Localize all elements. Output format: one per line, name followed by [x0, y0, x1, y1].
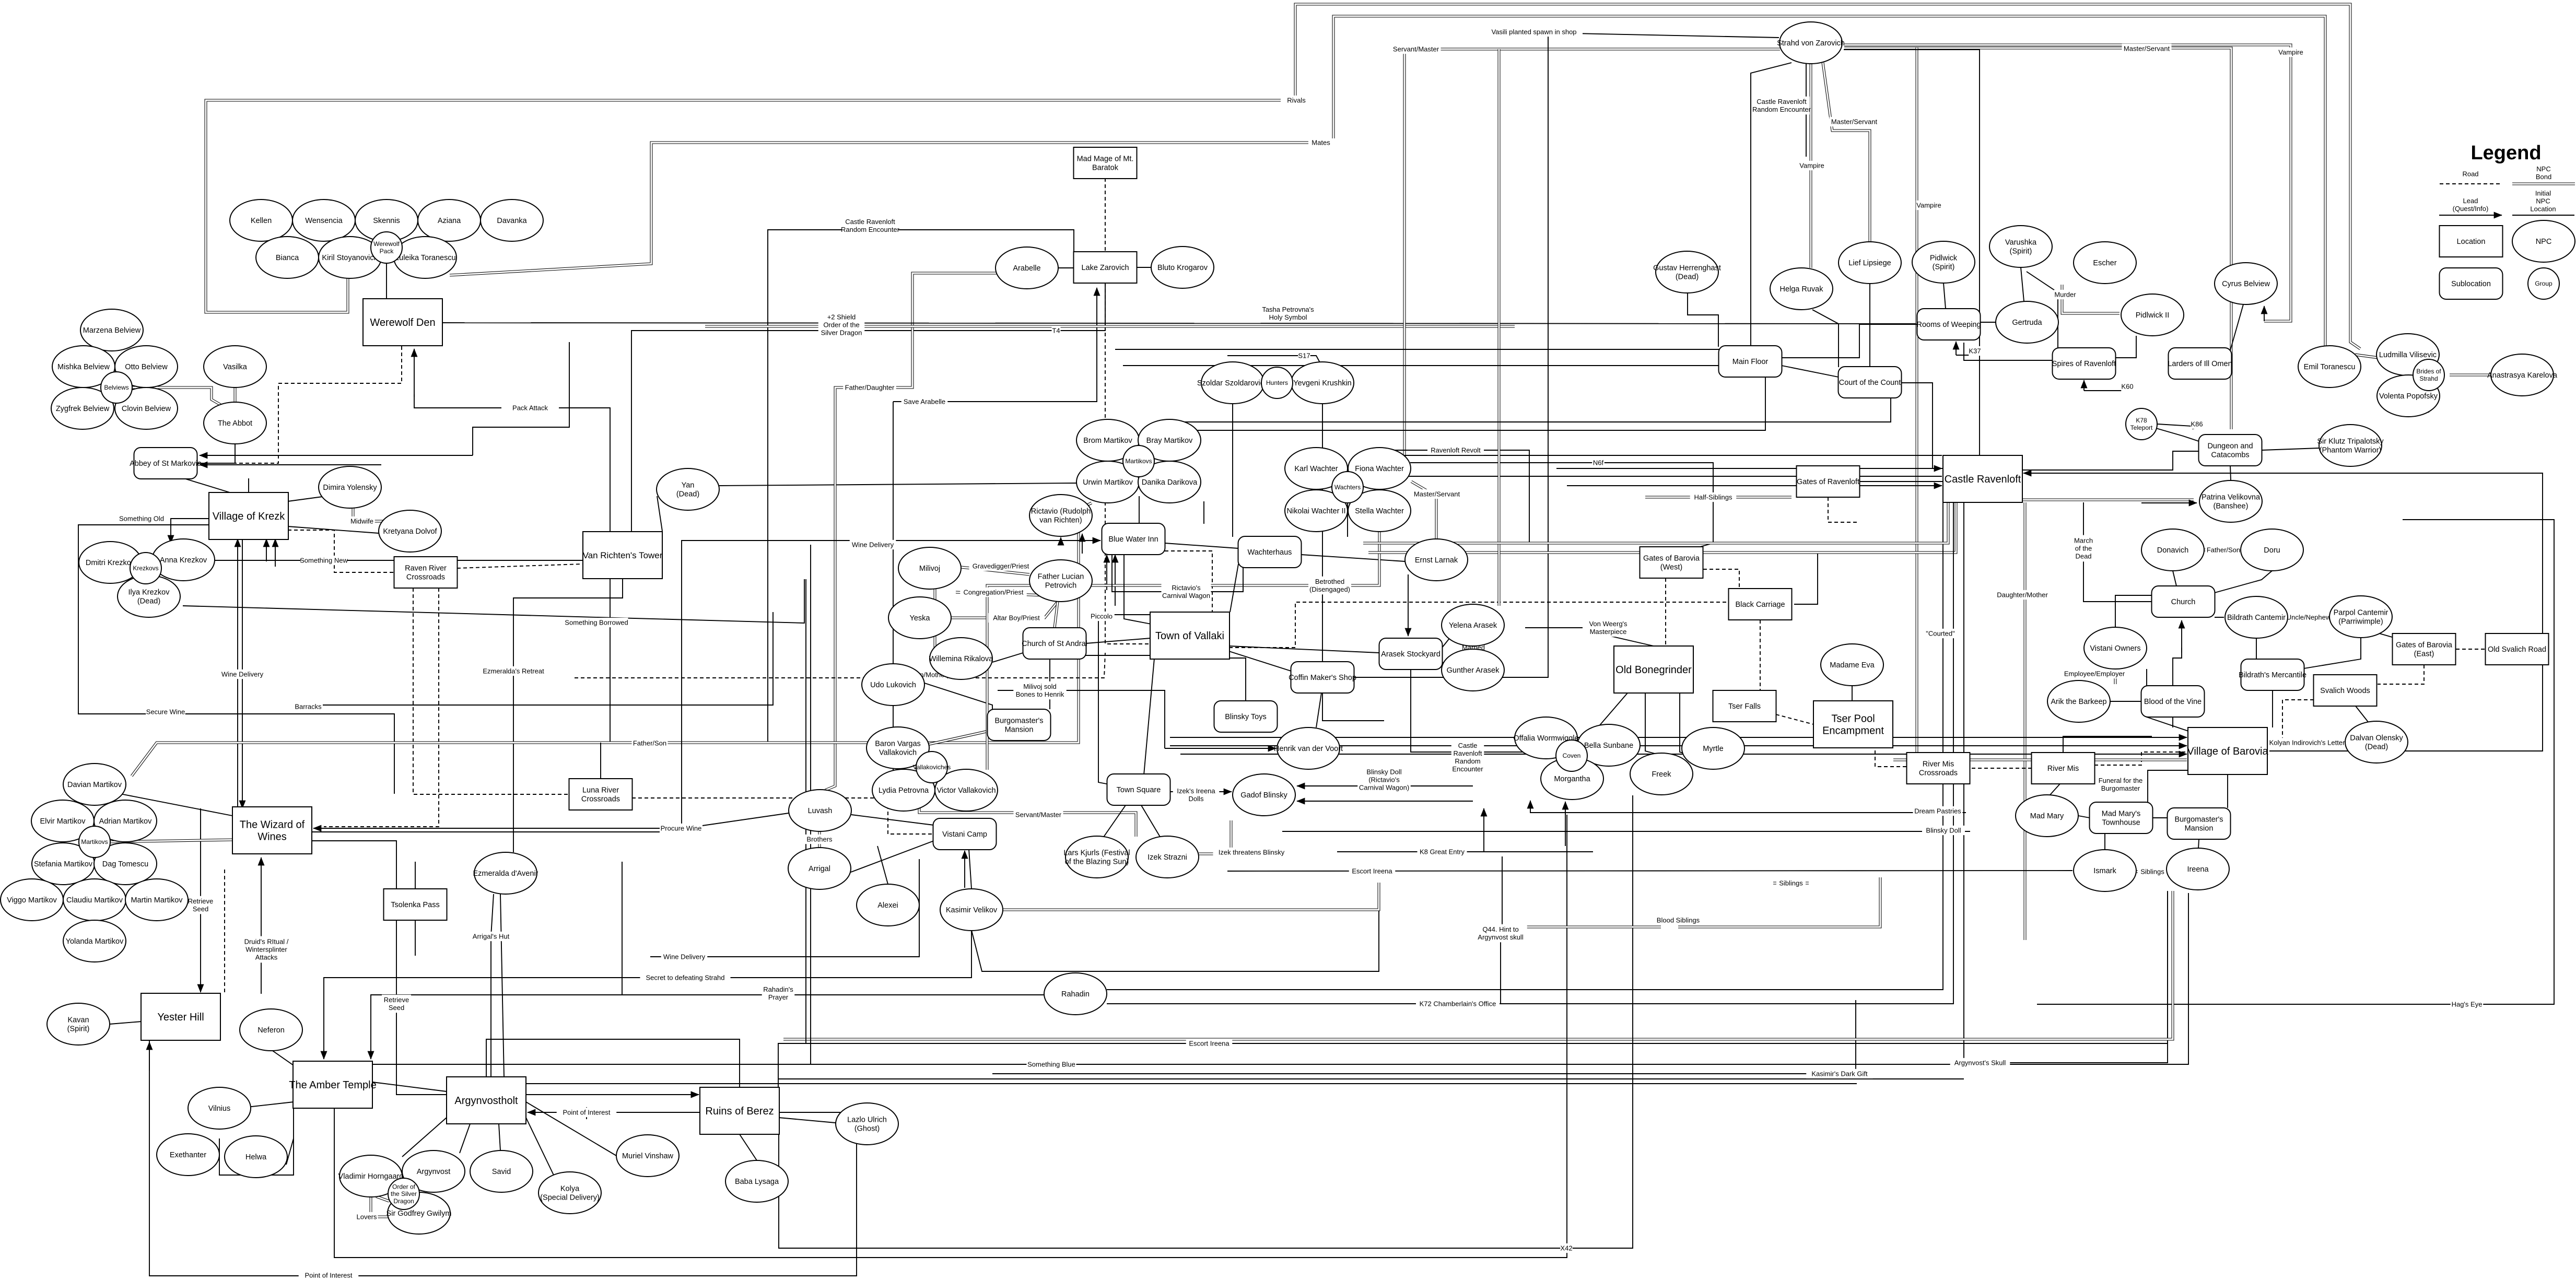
node label — [1052, 326, 1061, 335]
NPC Mishka Belview — [52, 346, 115, 387]
wire — [450, 143, 1308, 275]
wire — [1139, 496, 1140, 524]
svg-text:Half-Siblings: Half-Siblings — [1694, 494, 1732, 501]
wire — [559, 408, 610, 743]
wire — [2374, 632, 2392, 637]
NPC Freek — [1630, 753, 1693, 795]
node label — [1474, 924, 1527, 943]
svg-text:Order of: Order of — [392, 1183, 416, 1190]
wire — [919, 768, 1136, 837]
NPC Gertruda — [1996, 301, 2058, 343]
svg-text:Coffin Maker's Shop: Coffin Maker's Shop — [1289, 674, 1356, 682]
node label — [1588, 619, 1628, 637]
svg-text:Father/Son: Father/Son — [633, 739, 666, 747]
svg-text:K86: K86 — [2191, 420, 2203, 428]
NPC Willemina Rikalova — [929, 638, 993, 679]
wire — [2027, 272, 2058, 350]
group Hunters — [1261, 367, 1293, 398]
svg-text:Betrothed: Betrothed — [1315, 578, 1344, 585]
wire — [2078, 816, 2090, 818]
wire — [1115, 349, 1719, 350]
svg-text:Argynvost skull: Argynvost skull — [1478, 933, 1524, 941]
wire — [1823, 63, 1870, 242]
wire — [1055, 602, 1058, 628]
NPC Viggo Martikov — [1, 879, 63, 921]
wire — [219, 1108, 294, 1175]
NPC Otto Belview — [115, 346, 178, 387]
location Gates of Ravenloft — [1797, 466, 1860, 497]
location Village of Barovia — [2187, 727, 2268, 774]
wire — [779, 1118, 836, 1123]
wire — [2094, 752, 2187, 765]
sublocation Wachterhaus — [1238, 536, 1302, 568]
wire — [413, 588, 569, 794]
wire — [1680, 693, 1697, 757]
svg-text:Village of Barovia: Village of Barovia — [2187, 746, 2268, 757]
wire — [1500, 940, 1501, 1004]
sublocation Blinsky Toys — [1214, 701, 1278, 732]
NPC Lief Lipsiege — [1839, 242, 1901, 284]
node label — [2065, 669, 2125, 678]
svg-text:Funeral for the: Funeral for the — [2099, 777, 2143, 784]
svg-text:Doru: Doru — [2264, 546, 2280, 555]
svg-text:Gadof Blinsky: Gadof Blinsky — [1240, 791, 1287, 800]
svg-text:Parpol Cantemir: Parpol Cantemir — [2334, 609, 2388, 617]
svg-text:of the Blazing Sun): of the Blazing Sun) — [1065, 858, 1129, 866]
wire — [1645, 496, 1792, 499]
svg-text:K37: K37 — [1969, 347, 1981, 355]
svg-text:Myrtle: Myrtle — [1703, 745, 1723, 753]
svg-text:Stefania Martikov: Stefania Martikov — [34, 860, 93, 868]
svg-text:Vampire: Vampire — [2278, 49, 2303, 56]
NPC Wensencia — [292, 199, 355, 241]
svg-text:Dimira Yolensky: Dimira Yolensky — [323, 484, 377, 492]
NPC Elvir Martikov — [31, 800, 94, 842]
wire — [1106, 555, 1107, 590]
NPC Lydia Petrovna — [872, 769, 935, 811]
wire — [1227, 871, 2072, 871]
svg-text:Kolya: Kolya — [560, 1185, 580, 1193]
sublocation Main Floor — [1719, 346, 1782, 377]
NPC Stella Wachter — [1348, 490, 1411, 532]
svg-text:Yevgeni Krushkin: Yevgeni Krushkin — [1293, 379, 1352, 387]
NPC Vilnius — [188, 1087, 251, 1129]
NPC Davian Martikov — [63, 764, 126, 805]
svg-text:Order of the: Order of the — [823, 321, 859, 329]
node label — [468, 932, 514, 941]
NPC Davanka — [481, 199, 543, 241]
wire — [323, 1050, 324, 1059]
location Old Bonegrinder — [1614, 646, 1693, 693]
wire — [705, 325, 1515, 328]
NPC Stefania Martikov — [32, 843, 95, 885]
svg-text:Point of Interest: Point of Interest — [305, 1272, 352, 1279]
NPC Kellen — [230, 199, 292, 241]
wire — [1483, 808, 1484, 852]
svg-text:Kiril Stoyanovich: Kiril Stoyanovich — [322, 254, 378, 262]
wire — [473, 342, 569, 455]
group Brides of Strahd — [2413, 359, 2444, 391]
location River Mis — [2032, 753, 2095, 784]
svg-text:Blinsky Doll: Blinsky Doll — [1366, 768, 1401, 776]
svg-text:Lars Kjurls (Festival: Lars Kjurls (Festival — [1063, 849, 1130, 858]
wire — [971, 888, 1379, 971]
svg-text:Vasili planted spawn in shop: Vasili planted spawn in shop — [1491, 28, 1576, 36]
wire — [2021, 499, 2194, 501]
svg-text:Werewolf Den: Werewolf Den — [370, 317, 435, 328]
svg-text:Murder: Murder — [2054, 291, 2076, 299]
NPC Brom Martikov — [1076, 419, 1139, 461]
svg-text:Wintersplinter: Wintersplinter — [245, 946, 287, 954]
svg-text:Marzena Belview: Marzena Belview — [83, 326, 141, 335]
svg-text:Master/Servant: Master/Servant — [1831, 118, 1878, 126]
wire — [1229, 651, 1291, 671]
svg-text:Krezkovs: Krezkovs — [133, 565, 158, 572]
node label — [1298, 351, 1310, 360]
NPC Yevgeni Krushkin — [1291, 362, 1354, 404]
node label — [1460, 643, 1486, 652]
location Castle Ravenloft — [1943, 455, 2022, 502]
svg-text:Kasimir Velikov: Kasimir Velikov — [946, 906, 998, 914]
svg-text:Black Carriage: Black Carriage — [1735, 601, 1785, 609]
node label — [299, 1271, 359, 1280]
wire — [2062, 285, 2120, 313]
svg-text:Muriel Vinshaw: Muriel Vinshaw — [622, 1152, 674, 1160]
sublocation Town Square — [1107, 774, 1170, 805]
svg-text:Siblings: Siblings — [1779, 879, 1803, 887]
wire — [586, 1107, 587, 1119]
wire — [2450, 374, 2491, 377]
svg-text:Gravedigger/Priest: Gravedigger/Priest — [973, 562, 1029, 570]
wire — [1295, 4, 2360, 349]
NPC Gustav Herrenghast (Dead) — [1653, 251, 1721, 293]
wire — [286, 1138, 294, 1165]
svg-text:River Mis: River Mis — [2047, 765, 2079, 773]
location Old Svalich Road — [2486, 633, 2549, 665]
wire — [1760, 620, 1761, 691]
NPC Yolanda Martikov — [63, 920, 126, 962]
NPC Udo Lukovich — [862, 664, 924, 706]
NPC Vasilka — [204, 346, 266, 387]
svg-text:Silver Dragon: Silver Dragon — [821, 329, 862, 337]
node label — [1654, 915, 1703, 925]
node label — [557, 1108, 617, 1117]
wire — [2141, 502, 2197, 503]
sublocation Coffin Maker's Shop — [1289, 662, 1356, 693]
svg-text:Larders of Ill Omen: Larders of Ill Omen — [2168, 360, 2232, 368]
wire — [500, 894, 504, 1077]
wire — [2115, 336, 2136, 358]
NPC Bella Sunbane — [1577, 724, 1640, 766]
svg-text:Davanka: Davanka — [497, 217, 527, 225]
svg-text:Escort Ireena: Escort Ireena — [1189, 1040, 1230, 1048]
NPC Luvash — [789, 790, 851, 831]
svg-text:Stella Wachter: Stella Wachter — [1355, 507, 1404, 515]
svg-text:Gates of Ravenloft: Gates of Ravenloft — [1797, 478, 1859, 486]
svg-text:Skennis: Skennis — [373, 217, 400, 225]
svg-text:Rooms of Weeping: Rooms of Weeping — [1916, 321, 1981, 329]
svg-text:Crossroads: Crossroads — [1919, 769, 1958, 777]
wire — [1525, 627, 1583, 628]
wire — [1964, 502, 2168, 1063]
svg-text:Legend: Legend — [2470, 142, 2541, 164]
wire — [2227, 774, 2228, 808]
svg-text:Zuleika Toranescu: Zuleika Toranescu — [394, 254, 455, 262]
location Lake Zarovich — [1074, 252, 1137, 283]
node label — [382, 995, 411, 1013]
svg-text:Vistani Owners: Vistani Owners — [2090, 644, 2140, 653]
wire — [1893, 759, 2187, 761]
node label — [1996, 590, 2049, 600]
svg-text:(East): (East) — [2414, 650, 2434, 658]
svg-text:Catacombs: Catacombs — [2211, 451, 2249, 459]
svg-text:Congregation/Priest: Congregation/Priest — [964, 589, 1024, 596]
wire — [2512, 215, 2574, 216]
wire — [1782, 324, 1917, 358]
node label — [480, 666, 547, 676]
wire — [1844, 48, 2231, 429]
svg-text:Clovin Belview: Clovin Belview — [122, 405, 171, 413]
svg-text:Ismark: Ismark — [2093, 867, 2116, 875]
node label — [661, 952, 708, 961]
node label — [565, 618, 628, 627]
wire — [242, 539, 243, 808]
sublocation Church of St Andral — [1022, 628, 1087, 659]
wire — [132, 387, 221, 405]
svg-text:"Courted": "Courted" — [1926, 630, 1955, 638]
wire — [1844, 50, 1980, 455]
node label — [2121, 382, 2134, 391]
NPC Kavan (Spirit) — [47, 1003, 110, 1045]
svg-text:Vallakovich: Vallakovich — [879, 748, 917, 757]
wire — [1645, 693, 1657, 754]
svg-text:(Dead): (Dead) — [137, 597, 160, 605]
sublocation Rooms of Weeping — [1916, 309, 1981, 340]
svg-text:Masterpiece: Masterpiece — [1590, 628, 1627, 636]
NPC Ilya Krezkov (Dead) — [118, 576, 180, 617]
svg-text:Dungeon and: Dungeon and — [2207, 442, 2253, 451]
NPC Zygfrek Belview — [51, 387, 114, 429]
node label — [960, 588, 1027, 597]
location The Wizard of Wines — [232, 807, 312, 854]
NPC Fiona Wachter — [1348, 448, 1411, 489]
svg-text:Pack Attack: Pack Attack — [512, 404, 548, 412]
node label — [1213, 848, 1290, 857]
node label — [1013, 682, 1067, 700]
wire — [1107, 502, 1943, 990]
svg-text:Arrigal's Hut: Arrigal's Hut — [473, 933, 510, 941]
wire — [460, 1124, 470, 1153]
svg-text:Something New: Something New — [300, 557, 348, 565]
svg-text:Brides of: Brides of — [2416, 368, 2441, 375]
svg-text:Town of Vallaki: Town of Vallaki — [1155, 630, 1224, 642]
wire — [1404, 49, 1780, 480]
sublocation Vistani Camp — [933, 818, 997, 850]
node label — [1391, 44, 1441, 54]
svg-text:Burgomaster: Burgomaster — [2101, 784, 2140, 792]
svg-text:Spires of Ravenloft: Spires of Ravenloft — [2052, 360, 2116, 368]
svg-text:Vallakoviches: Vallakoviches — [913, 764, 951, 771]
svg-text:Random: Random — [1455, 757, 1480, 765]
wire — [575, 653, 1105, 678]
NPC Offalia Wormwiggle — [1513, 717, 1578, 759]
wire — [2037, 473, 2543, 751]
location Town of Vallaki — [1150, 612, 1230, 659]
wire — [616, 1094, 699, 1095]
wire — [1964, 343, 2053, 360]
wire — [234, 387, 237, 402]
node label — [1285, 96, 1308, 105]
location Tser Pool Encampment — [1813, 701, 1893, 748]
wire — [1688, 293, 1718, 347]
svg-text:Brothers: Brothers — [806, 836, 833, 843]
node label — [1969, 346, 1981, 356]
svg-text:Blood of the Vine: Blood of the Vine — [2144, 698, 2202, 706]
wire — [650, 859, 919, 957]
svg-text:Pidlwick: Pidlwick — [1930, 254, 1958, 263]
wire — [2215, 617, 2224, 618]
svg-text:Dmitri Krezkov: Dmitri Krezkov — [86, 559, 135, 567]
svg-text:Milivoj: Milivoj — [919, 565, 940, 573]
wire — [312, 841, 616, 1095]
wire — [386, 263, 387, 298]
svg-text:Kasimir's Dark Gift: Kasimir's Dark Gift — [1811, 1070, 1868, 1078]
svg-text:Karl Wachter: Karl Wachter — [1294, 465, 1338, 473]
wire — [1844, 45, 2291, 321]
svg-text:(Special Delivery): (Special Delivery) — [540, 1193, 600, 1202]
wire — [312, 541, 1096, 832]
wire — [1229, 646, 1379, 653]
svg-text:Ilya Krezkov: Ilya Krezkov — [128, 589, 170, 597]
wire — [1565, 802, 1566, 815]
node label — [1950, 1058, 2010, 1067]
node label — [1806, 1069, 1873, 1078]
wire — [1363, 476, 1942, 477]
node label — [1560, 1243, 1573, 1253]
svg-text:Dalvan Olensky: Dalvan Olensky — [2350, 734, 2403, 743]
svg-text:Luvash: Luvash — [808, 807, 833, 815]
wire — [2110, 701, 2141, 702]
svg-text:Escher: Escher — [2093, 259, 2116, 267]
svg-text:Davian Martikov: Davian Martikov — [67, 781, 122, 789]
svg-text:Emil Toranescu: Emil Toranescu — [2304, 363, 2356, 371]
NPC Clovin Belview — [115, 387, 178, 429]
wire — [1322, 404, 1323, 662]
svg-text:Morgantha: Morgantha — [1554, 775, 1590, 783]
svg-text:Strahd: Strahd — [2419, 375, 2438, 382]
node label — [1922, 826, 1965, 835]
svg-text:Milivoj sold: Milivoj sold — [1023, 683, 1057, 690]
wire — [929, 731, 988, 744]
wire — [528, 1112, 622, 1113]
svg-text:Seed: Seed — [389, 1004, 404, 1012]
wire — [370, 1050, 371, 1059]
svg-text:Save Arabelle: Save Arabelle — [904, 398, 945, 406]
NPC Yan (Dead) — [657, 468, 719, 510]
node label — [356, 1212, 378, 1222]
svg-text:Kavan: Kavan — [67, 1016, 89, 1025]
svg-text:Wachters: Wachters — [1334, 484, 1361, 491]
svg-text:Claudiu Martikov: Claudiu Martikov — [66, 896, 123, 905]
wire — [215, 560, 582, 561]
svg-text:of the: of the — [2075, 545, 2092, 553]
svg-text:Alexei: Alexei — [877, 901, 898, 910]
svg-text:+2 Shield: +2 Shield — [827, 313, 856, 321]
NPC Donavich — [2141, 529, 2204, 571]
wire — [2156, 428, 2199, 441]
svg-text:Hunters: Hunters — [1266, 379, 1288, 386]
NPC Urwin Martikov — [1076, 461, 1139, 503]
wire — [371, 995, 1044, 1059]
svg-text:Lief Lipsiege: Lief Lipsiege — [1848, 259, 1891, 267]
svg-text:Rahadin's: Rahadin's — [763, 985, 793, 993]
node label — [1416, 999, 1500, 1008]
node label — [1260, 304, 1316, 323]
svg-text:Fiona Wachter: Fiona Wachter — [1355, 465, 1404, 473]
wire — [2136, 871, 2167, 873]
svg-text:Kretyana Dolvof: Kretyana Dolvof — [383, 527, 437, 536]
wire — [1368, 502, 1956, 553]
node label — [2536, 164, 2551, 182]
wire — [1301, 555, 1405, 561]
wire — [78, 525, 394, 794]
wire — [1970, 768, 2032, 769]
NPC Sir Klutz Tripalotsky (Phantom Warrior) — [2317, 425, 2384, 466]
wire — [951, 602, 1058, 618]
svg-text:Piccolo: Piccolo — [1091, 613, 1113, 620]
NPC Gadof Blinsky — [1233, 774, 1295, 816]
svg-text:Izek Strazni: Izek Strazni — [1148, 853, 1187, 862]
svg-text:Father/Daughter: Father/Daughter — [845, 384, 895, 392]
svg-text:Prayer: Prayer — [768, 993, 789, 1001]
wire — [2147, 669, 2188, 731]
svg-text:Random Encounter: Random Encounter — [1752, 105, 1811, 113]
svg-text:Arasek Stockyard: Arasek Stockyard — [1381, 650, 1441, 659]
wire — [893, 402, 894, 781]
NPC Szoldar Szoldarovich — [1197, 362, 1268, 404]
svg-text:Blinsky Doll: Blinsky Doll — [1926, 827, 1961, 835]
svg-text:Blood Siblings: Blood Siblings — [1657, 917, 1700, 924]
svg-text:Mad Mary's: Mad Mary's — [2102, 810, 2140, 818]
svg-text:Mansion: Mansion — [2185, 824, 2214, 832]
svg-text:Vistani Camp: Vistani Camp — [942, 830, 987, 839]
svg-text:Uncle/Nephew: Uncle/Nephew — [2287, 614, 2331, 621]
location Van Richten's Tower — [583, 532, 663, 579]
wire — [631, 283, 1105, 531]
wire — [2181, 620, 2182, 653]
svg-text:Mad Mary: Mad Mary — [2030, 812, 2064, 820]
svg-text:Coven: Coven — [1563, 752, 1581, 759]
node label — [1173, 786, 1220, 804]
svg-text:Castle Ravenloft: Castle Ravenloft — [1945, 474, 2021, 485]
NPC Madame Eva — [1821, 644, 1883, 686]
wire — [2148, 770, 2188, 802]
sublocation Burgomaster's Mansion — [2168, 808, 2231, 839]
NPC Helwa — [225, 1136, 287, 1178]
svg-text:Anastrasya Karelova: Anastrasya Karelova — [2487, 371, 2558, 380]
wire — [1902, 383, 1944, 468]
svg-text:Von Weerg's: Von Weerg's — [1589, 620, 1627, 628]
wire — [288, 526, 379, 533]
wire — [1943, 283, 1946, 309]
svg-text:Town Square: Town Square — [1117, 786, 1161, 794]
NPC Dalvan Olensky (Dead) — [2345, 721, 2408, 763]
svg-text:Svalich Woods: Svalich Woods — [2320, 687, 2370, 695]
svg-text:Secret to defeating Strahd: Secret to defeating Strahd — [646, 974, 724, 982]
location The Amber Temple — [289, 1061, 377, 1108]
wire — [183, 579, 804, 623]
svg-text:Aziana: Aziana — [438, 217, 461, 225]
